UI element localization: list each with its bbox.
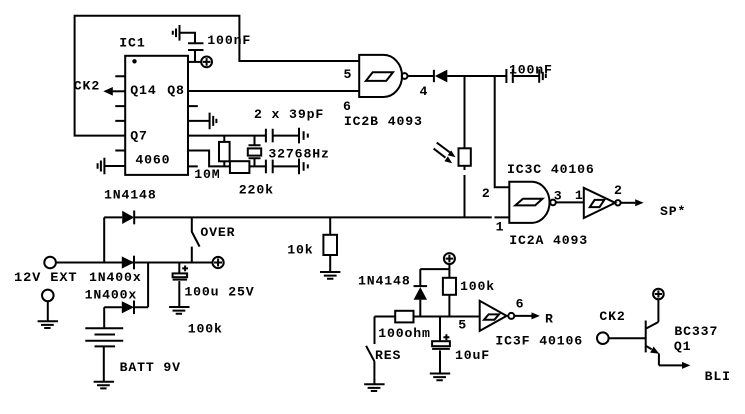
svg-text:BLI: BLI	[705, 369, 731, 384]
svg-text:220k: 220k	[239, 182, 274, 197]
svg-text:100k: 100k	[188, 321, 223, 336]
svg-text:10uF: 10uF	[455, 348, 490, 363]
svg-text:100ohm: 100ohm	[378, 326, 431, 341]
svg-text:6: 6	[343, 99, 352, 114]
svg-text:100nF: 100nF	[207, 33, 251, 48]
svg-text:1N400x: 1N400x	[89, 270, 142, 285]
svg-text:1N4148: 1N4148	[104, 188, 157, 203]
svg-text:10k: 10k	[287, 243, 313, 258]
svg-text:1N4148: 1N4148	[358, 274, 411, 289]
svg-text:Q7: Q7	[130, 128, 148, 143]
svg-text:Q1: Q1	[674, 339, 692, 354]
svg-text:OVER: OVER	[200, 225, 235, 240]
svg-text:12V EXT: 12V EXT	[14, 270, 78, 285]
svg-text:IC1: IC1	[119, 35, 145, 50]
svg-text:BATT 9V: BATT 9V	[120, 360, 181, 375]
svg-text:SP*: SP*	[660, 204, 686, 219]
svg-text:4060: 4060	[135, 152, 170, 167]
svg-text:RES: RES	[375, 348, 401, 363]
svg-text:Q8: Q8	[167, 83, 185, 98]
svg-text:CK2: CK2	[599, 309, 625, 324]
svg-text:CK2: CK2	[74, 78, 100, 93]
svg-text:IC2A 4093: IC2A 4093	[509, 233, 588, 248]
svg-text:100u 25V: 100u 25V	[184, 284, 254, 299]
svg-text:R: R	[545, 312, 554, 327]
svg-text:32768Hz: 32768Hz	[268, 146, 329, 161]
svg-text:10M: 10M	[194, 167, 220, 182]
svg-text:IC2B 4093: IC2B 4093	[344, 114, 423, 129]
svg-text:3: 3	[554, 189, 563, 204]
svg-text:BC337: BC337	[674, 324, 718, 339]
svg-text:1N400x: 1N400x	[85, 288, 138, 303]
svg-text:100k: 100k	[460, 279, 495, 294]
svg-text:1: 1	[575, 188, 584, 203]
svg-text:IC3F 40106: IC3F 40106	[495, 333, 583, 348]
svg-text:4: 4	[420, 84, 429, 99]
svg-text:5: 5	[344, 67, 353, 82]
svg-text:1: 1	[496, 219, 505, 234]
svg-text:Q14: Q14	[130, 83, 156, 98]
svg-text:IC3C 40106: IC3C 40106	[507, 162, 595, 177]
svg-text:6: 6	[516, 297, 525, 312]
svg-text:100nF: 100nF	[509, 62, 553, 77]
svg-text:5: 5	[458, 318, 467, 333]
svg-text:2 x 39pF: 2 x 39pF	[254, 107, 324, 122]
svg-text:2: 2	[482, 186, 491, 201]
svg-text:2: 2	[614, 183, 623, 198]
